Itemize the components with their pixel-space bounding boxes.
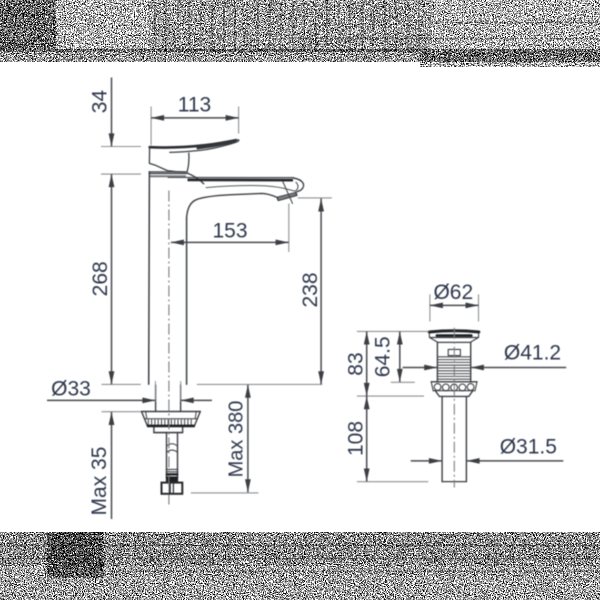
svg-text:113: 113 bbox=[178, 93, 211, 116]
svg-text:268: 268 bbox=[89, 261, 112, 296]
svg-text:Ø33: Ø33 bbox=[51, 377, 91, 400]
svg-text:Max 380: Max 380 bbox=[226, 401, 248, 478]
svg-text:64.5: 64.5 bbox=[372, 336, 395, 377]
svg-text:34: 34 bbox=[89, 90, 112, 114]
svg-text:Max 35: Max 35 bbox=[88, 447, 111, 516]
svg-text:238: 238 bbox=[299, 272, 322, 307]
svg-text:83: 83 bbox=[345, 352, 368, 375]
svg-text:Ø62: Ø62 bbox=[433, 281, 473, 304]
svg-text:Ø31.5: Ø31.5 bbox=[500, 435, 557, 458]
svg-text:108: 108 bbox=[344, 421, 367, 456]
svg-text:153: 153 bbox=[212, 219, 247, 242]
svg-text:Ø41.2: Ø41.2 bbox=[504, 342, 561, 365]
